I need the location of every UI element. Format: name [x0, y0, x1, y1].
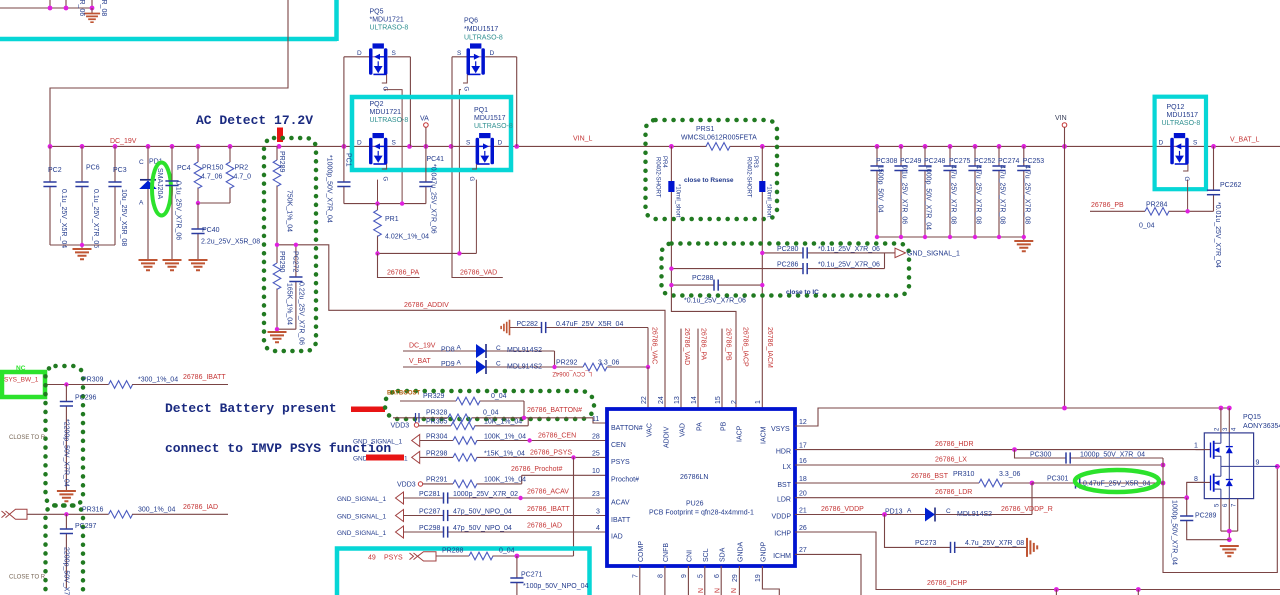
- svg-text:PC308: PC308: [876, 158, 898, 165]
- svg-text:26786_IBATT: 26786_IBATT: [527, 506, 570, 513]
- svg-text:*0.01u_25V_X7R_04: *0.01u_25V_X7R_04: [1214, 202, 1221, 268]
- resistor PR310: [953, 471, 1032, 487]
- svg-text:BATBOOST: BATBOOST: [387, 391, 421, 397]
- svg-text:PR298: PR298: [426, 451, 448, 458]
- svg-text:MDU1517: MDU1517: [474, 115, 506, 122]
- svg-text:PD13: PD13: [885, 509, 903, 516]
- svg-text:GND_SIGNAL_1: GND_SIGNAL_1: [337, 496, 387, 503]
- svg-text:PC248: PC248: [924, 158, 946, 165]
- resistor PR329: [400, 393, 524, 418]
- svg-text:26786_ICHP: 26786_ICHP: [927, 580, 967, 587]
- wire PQ6 drain to rail: [516, 57, 518, 147]
- svg-text:AC Detect 17.2V: AC Detect 17.2V: [196, 113, 313, 128]
- svg-text:VIN_L: VIN_L: [573, 136, 593, 143]
- cyan highlight box (PQ12): [1155, 97, 1206, 190]
- svg-text:23: 23: [592, 491, 600, 498]
- svg-text:C: C: [946, 508, 951, 515]
- svg-text:17: 17: [799, 443, 807, 450]
- svg-text:L_CCV_0064Z: L_CCV_0064Z: [552, 370, 592, 376]
- highlight dotted box (PC297): [46, 506, 84, 595]
- svg-text:PQ5: PQ5: [370, 9, 384, 16]
- capacitor PC298: [404, 525, 608, 538]
- svg-text:26786_VAD: 26786_VAD: [460, 270, 497, 277]
- svg-text:1000p_50V_X7R_04: 1000p_50V_X7R_04: [1080, 452, 1145, 459]
- svg-text:10u_25V_X5R_08: 10u_25V_X5R_08: [120, 189, 127, 246]
- svg-text:VDDP: VDDP: [772, 514, 792, 521]
- svg-text:D: D: [357, 140, 362, 147]
- svg-text:PC253: PC253: [1023, 158, 1045, 165]
- wire 26786_PB to pin 15: [721, 329, 723, 409]
- svg-text:4.7u_25V_X7R_08: 4.7u_25V_X7R_08: [950, 165, 957, 224]
- svg-text:*0.1u_25V_X7R_06: *0.1u_25V_X7R_06: [818, 246, 880, 253]
- wire cap bank bottom: [877, 237, 1024, 240]
- svg-text:1: 1: [755, 400, 762, 404]
- resistor PR316: [27, 507, 228, 519]
- svg-text:1000p_50V_X7R_04: 1000p_50V_X7R_04: [1171, 500, 1178, 565]
- transistor PQ6 *MDU1517: [452, 18, 517, 92]
- svg-text:DC_19V: DC_19V: [409, 343, 436, 350]
- svg-text:0_04: 0_04: [491, 393, 507, 400]
- svg-text:PC40: PC40: [202, 227, 220, 234]
- wire PD8 cathode down: [554, 351, 556, 367]
- svg-text:26786_HDR: 26786_HDR: [935, 441, 974, 448]
- svg-text:26786_IAD: 26786_IAD: [183, 504, 218, 511]
- svg-text:47p_50V_NPO_04: 47p_50V_NPO_04: [453, 525, 512, 532]
- resistor PR328: [393, 410, 607, 424]
- svg-text:PC6: PC6: [86, 165, 100, 172]
- svg-text:PC271: PC271: [521, 572, 543, 579]
- ground (PC282, rotated): [501, 320, 509, 336]
- wire 26786_VAC to pin 22: [647, 367, 649, 409]
- svg-text:14: 14: [691, 396, 698, 404]
- red marker (after title): [351, 407, 385, 413]
- svg-text:*MDU1721: *MDU1721: [370, 17, 404, 24]
- resistor PR292: [556, 360, 648, 371]
- resistor PR305 pull-up VDD3: [391, 418, 529, 430]
- svg-text:PA: PA: [697, 422, 704, 431]
- svg-text:26786_IBATT: 26786_IBATT: [183, 374, 226, 381]
- svg-text:A: A: [139, 200, 144, 207]
- resistor PR309: [82, 377, 228, 389]
- svg-text:26786_CEN: 26786_CEN: [538, 433, 576, 440]
- wire VDDP pin 21: [795, 514, 925, 516]
- svg-text:PQ6: PQ6: [464, 18, 478, 25]
- svg-text:9: 9: [681, 574, 688, 578]
- wire LDR pin 20: [795, 482, 1204, 497]
- svg-text:C: C: [496, 345, 501, 352]
- svg-text:3.3_06: 3.3_06: [598, 360, 620, 367]
- port 26786_IAD (left): [2, 511, 10, 518]
- transistor PQ15-B (bottom NFET): [1187, 466, 1233, 498]
- ground (PC4): [163, 260, 182, 270]
- wire 26786_PA to pin 14: [697, 329, 699, 409]
- svg-text:GNDA: GNDA: [738, 541, 745, 562]
- wire PQ15 drain feeds: [1221, 408, 1229, 433]
- svg-text:0.1u_25V_X7R_06: 0.1u_25V_X7R_06: [175, 181, 182, 240]
- svg-text:*10mil_short: *10mil_short: [675, 184, 681, 218]
- svg-text:S: S: [457, 50, 462, 57]
- wire CNFB pin 8: [664, 566, 666, 595]
- svg-text:PC281: PC281: [419, 491, 441, 498]
- op-amp/controller U PU26 26786LN: [607, 409, 795, 566]
- svg-text:0_04: 0_04: [483, 410, 499, 417]
- svg-text:WMCSL0612R005FETA: WMCSL0612R005FETA: [681, 135, 757, 142]
- svg-text:V_BAT: V_BAT: [409, 358, 431, 365]
- svg-text:ULTRASO-8: ULTRASO-8: [464, 35, 503, 42]
- svg-text:ACAV: ACAV: [611, 500, 630, 507]
- svg-text:D: D: [357, 50, 362, 57]
- svg-text:1500p_50V_04: 1500p_50V_04: [877, 165, 884, 213]
- svg-text:9: 9: [1256, 460, 1260, 467]
- svg-text:1000p_25V_X7R_02: 1000p_25V_X7R_02: [453, 491, 518, 498]
- wire PQ5 drain to rail: [343, 57, 345, 147]
- ground (PC40): [189, 260, 208, 270]
- wire PR1 bottom row / gates node: [378, 252, 477, 254]
- svg-text:S: S: [1193, 140, 1198, 147]
- svg-text:IBATT: IBATT: [611, 517, 631, 524]
- capacitor PC248: [918, 146, 945, 237]
- svg-text:D: D: [1159, 140, 1164, 147]
- ground (PC296): [57, 491, 76, 501]
- wire COMP pin 7: [639, 566, 641, 595]
- svg-text:R0402-SHORT: R0402-SHORT: [655, 157, 661, 198]
- svg-text:PR4: PR4: [661, 156, 667, 168]
- wire SYS_BW_1 to PR309: [46, 384, 109, 386]
- svg-text:1: 1: [1194, 443, 1198, 450]
- wire PSYS down to PR288 row: [573, 457, 575, 556]
- svg-text:LDR: LDR: [777, 497, 791, 504]
- transistor PQ1 MDU1517: [466, 107, 513, 182]
- transistor PQ2 MDU1721: [357, 101, 408, 182]
- svg-text:PR288: PR288: [442, 548, 464, 555]
- svg-text:6: 6: [714, 574, 721, 578]
- svg-text:MDU1517: MDU1517: [1167, 112, 1199, 119]
- svg-text:25: 25: [592, 451, 600, 458]
- resistor PR3 (R0402-SHORT): [746, 146, 772, 409]
- svg-text:MDL914S2: MDL914S2: [507, 347, 542, 354]
- capacitor PC273: [885, 515, 1027, 554]
- svg-text:NC: NC: [16, 365, 26, 372]
- svg-text:GND_SIGNAL_1: GND_SIGNAL_1: [353, 439, 403, 446]
- svg-text:PC297: PC297: [75, 523, 97, 530]
- diode PD9 MDL914S2: [403, 360, 583, 375]
- svg-text:AONY36354: AONY36354: [1243, 423, 1280, 430]
- capacitor PC40: [191, 203, 260, 259]
- highlight dotted box (close to IC caps): [662, 244, 910, 296]
- svg-text:*MDU1517: *MDU1517: [464, 26, 498, 33]
- svg-text:PSYS: PSYS: [384, 555, 403, 562]
- wire 26786_VAD to pin 13: [680, 329, 682, 409]
- wire SCL pin 5: [704, 566, 706, 595]
- svg-text:ULTRASO-8: ULTRASO-8: [370, 25, 409, 32]
- svg-text:PRS1: PRS1: [696, 126, 714, 133]
- wire top-left fragment: [0, 0, 92, 8]
- svg-text:PC1: PC1: [345, 153, 352, 167]
- svg-text:G: G: [468, 177, 474, 182]
- node junction dots (rsense caps): [669, 251, 764, 288]
- svg-text:CLOSE TO R: CLOSE TO R: [9, 435, 46, 441]
- svg-text:close to Rsense: close to Rsense: [684, 177, 734, 184]
- svg-text:PQ15: PQ15: [1243, 414, 1261, 421]
- svg-text:PC275: PC275: [949, 158, 971, 165]
- wire ICHM pin 27: [795, 554, 861, 595]
- svg-text:PR1: PR1: [385, 216, 399, 223]
- svg-text:PC262: PC262: [1220, 182, 1242, 189]
- svg-text:26786_PSYS: 26786_PSYS: [530, 450, 572, 457]
- svg-text:MDL914S2: MDL914S2: [957, 511, 992, 518]
- svg-text:PC280: PC280: [777, 246, 799, 253]
- svg-text:BST: BST: [777, 482, 791, 489]
- green highlight box SYS_BW_1: [2, 372, 45, 397]
- svg-text:*0.1u_25V_X7R_06: *0.1u_25V_X7R_06: [684, 298, 746, 305]
- svg-text:IAD: IAD: [611, 534, 623, 541]
- svg-text:R_06: R_06: [78, 0, 85, 16]
- svg-text:PQ2: PQ2: [370, 101, 384, 108]
- wire divider bottom: [277, 329, 296, 331]
- transistor PQ15 AONY36354 (dual NFET): [1194, 414, 1280, 507]
- svg-text:PC2: PC2: [48, 167, 62, 174]
- wire PQ15 source pins 5/6/7 to ground: [1221, 499, 1238, 540]
- resistor PR150: [194, 146, 223, 203]
- svg-text:26786_PB: 26786_PB: [1091, 202, 1124, 209]
- svg-text:COMP: COMP: [638, 541, 645, 562]
- svg-text:GND_SIGNAL_1: GND_SIGNAL_1: [337, 514, 387, 521]
- resistor PR1: [374, 204, 429, 254]
- svg-text:*2200p_50V_X7R_04: *2200p_50V_X7R_04: [63, 419, 70, 487]
- cyan highlight box (PQ2/PQ1): [352, 97, 511, 170]
- wire GNDA pin 29: [738, 566, 740, 595]
- ground (PQ15): [1220, 546, 1239, 556]
- svg-text:26: 26: [799, 525, 807, 532]
- svg-text:N: N: [729, 588, 736, 593]
- svg-text:26786_LX: 26786_LX: [935, 457, 967, 464]
- wire LX node loop: [1163, 458, 1280, 573]
- svg-text:49: 49: [368, 555, 376, 562]
- svg-text:10K_1%_04: 10K_1%_04: [484, 419, 522, 426]
- svg-text:VIN: VIN: [1055, 115, 1067, 122]
- svg-text:PD8: PD8: [441, 347, 455, 354]
- svg-text:D: D: [490, 50, 495, 57]
- svg-text:PC289: PC289: [1195, 513, 1217, 520]
- svg-text:ICHP: ICHP: [774, 531, 791, 538]
- svg-text:PC41: PC41: [427, 156, 445, 163]
- wire PQ2 gate: [377, 180, 379, 204]
- svg-text:A: A: [907, 508, 912, 515]
- wire ICHP branch drops: [1056, 590, 1138, 595]
- svg-text:0.47uF_25V_X5R_04: 0.47uF_25V_X5R_04: [556, 321, 623, 328]
- svg-text:PC287: PC287: [419, 509, 441, 516]
- svg-text:G: G: [382, 177, 388, 182]
- svg-text:*100p_50V_NPO_04: *100p_50V_NPO_04: [523, 583, 588, 590]
- svg-text:close to IC: close to IC: [786, 289, 819, 296]
- svg-text:13: 13: [674, 396, 681, 404]
- capacitor PC6: [75, 146, 99, 248]
- svg-text:*10mil_short: *10mil_short: [766, 184, 772, 218]
- capacitor PC296: [60, 385, 97, 491]
- svg-text:4.7u_25V_X7R_08: 4.7u_25V_X7R_08: [1023, 165, 1030, 224]
- svg-text:28: 28: [592, 434, 600, 441]
- svg-text:7: 7: [633, 574, 640, 578]
- svg-text:26786_PA: 26786_PA: [387, 270, 420, 277]
- svg-text:PC252: PC252: [974, 158, 996, 165]
- svg-text:1000p_50V_X7R_04: 1000p_50V_X7R_04: [925, 165, 932, 230]
- svg-text:ULTRASO-8: ULTRASO-8: [1162, 120, 1201, 127]
- svg-text:PR150: PR150: [202, 165, 224, 172]
- svg-text:VAC: VAC: [647, 423, 654, 437]
- svg-text:PC301: PC301: [1047, 476, 1069, 483]
- ground (PC273, rotated right): [1027, 538, 1037, 557]
- capacitor PC297: [60, 514, 97, 595]
- svg-text:26786_PB: 26786_PB: [725, 328, 732, 361]
- resistor PR2: [226, 146, 251, 203]
- svg-text:R_08: R_08: [100, 0, 107, 16]
- capacitor PC288: [671, 275, 762, 305]
- wire main rail DC_19V / VIN_L / V_BAT_L: [50, 145, 1280, 147]
- svg-text:PSYS: PSYS: [611, 459, 630, 466]
- svg-text:PR290: PR290: [278, 251, 285, 273]
- svg-text:PU26: PU26: [686, 501, 704, 508]
- svg-text:PC272: PC272: [292, 251, 299, 273]
- svg-text:PCB Footprint = qfn28-4x4mmd-1: PCB Footprint = qfn28-4x4mmd-1: [649, 510, 754, 517]
- wire HDR pin 17: [795, 449, 1204, 451]
- svg-text:26786_Prochot#: 26786_Prochot#: [511, 466, 562, 473]
- svg-text:PR3: PR3: [752, 156, 758, 168]
- svg-text:V_BAT_L: V_BAT_L: [1230, 137, 1260, 144]
- capacitor PC275: [943, 146, 970, 237]
- svg-text:8: 8: [658, 574, 665, 578]
- svg-text:PR292: PR292: [556, 360, 578, 367]
- svg-text:Detect Battery present: Detect Battery present: [165, 401, 337, 416]
- svg-text:10: 10: [592, 468, 600, 475]
- wire PQ6 gate down to PR1 node: [459, 90, 461, 254]
- svg-text:26786_IAD: 26786_IAD: [527, 523, 562, 530]
- svg-text:G: G: [463, 87, 469, 92]
- capacitor PC308: [870, 146, 897, 237]
- capacitor PC301: [1032, 476, 1163, 489]
- svg-text:PR304: PR304: [426, 434, 448, 441]
- svg-text:BATTON#: BATTON#: [611, 425, 643, 432]
- svg-text:0.1u_25V_X7R_06: 0.1u_25V_X7R_06: [92, 189, 99, 248]
- svg-text:VSYS: VSYS: [771, 426, 790, 433]
- svg-text:0.22u_25V_X7R_06: 0.22u_25V_X7R_06: [298, 282, 305, 345]
- cyan highlight box (PSYS bottom): [337, 549, 590, 595]
- svg-text:PC273: PC273: [915, 540, 937, 547]
- svg-text:2200p_50V_X7R_04: 2200p_50V_X7R_04: [63, 547, 70, 595]
- svg-text:SYS_BW_1: SYS_BW_1: [4, 377, 39, 384]
- svg-text:750K_1%_04: 750K_1%_04: [286, 190, 293, 232]
- wire PQ15 phase node pin 9: [1221, 465, 1277, 467]
- svg-text:GNDP: GNDP: [761, 541, 768, 562]
- wire PC282 to VAC node: [647, 328, 649, 367]
- svg-text:19: 19: [755, 574, 762, 582]
- svg-text:VDD3: VDD3: [391, 423, 410, 430]
- svg-text:26786_IACM: 26786_IACM: [766, 327, 773, 368]
- capacitor PC253: [1017, 146, 1044, 237]
- highlight dotted box (PC296): [46, 366, 84, 506]
- capacitor PC280: [762, 246, 884, 259]
- svg-text:5: 5: [698, 574, 705, 578]
- transistor PQ15-A (top NFET): [1196, 433, 1233, 466]
- svg-text:N: N: [712, 588, 719, 593]
- svg-text:G: G: [382, 87, 388, 92]
- node junction dots top-left: [48, 6, 95, 11]
- svg-text:26786_VAC: 26786_VAC: [651, 327, 658, 364]
- svg-text:PC249: PC249: [900, 158, 922, 165]
- svg-text:DC_19V: DC_19V: [110, 138, 137, 145]
- svg-text:ICHM: ICHM: [773, 553, 791, 560]
- svg-text:*15K_1%_04: *15K_1%_04: [484, 451, 525, 458]
- highlight dotted oval (BATTON): [385, 391, 594, 419]
- svg-text:IACM: IACM: [761, 426, 768, 444]
- wire PQ5 source to rail: [409, 57, 411, 147]
- capacitor PC249: [894, 146, 921, 237]
- svg-text:PD9: PD9: [441, 361, 455, 368]
- capacitor PC271: [510, 556, 588, 595]
- cyan highlight corner (top-left): [0, 0, 337, 41]
- svg-text:4.02K_1%_04: 4.02K_1%_04: [385, 234, 429, 241]
- capacitor PC300: [1015, 450, 1164, 464]
- svg-text:ULTRASO-8: ULTRASO-8: [474, 123, 513, 130]
- resistor PR4 (R0402-SHORT): [655, 146, 681, 285]
- svg-text:PC296: PC296: [75, 395, 97, 402]
- svg-text:Prochot#: Prochot#: [611, 477, 639, 484]
- svg-text:PC282: PC282: [517, 321, 539, 328]
- svg-text:PQ12: PQ12: [1167, 104, 1185, 111]
- wire PQ5 gate: [384, 90, 402, 204]
- svg-text:PC4: PC4: [177, 165, 191, 172]
- wire PR150/PR2 join: [198, 202, 230, 204]
- svg-text:S: S: [466, 140, 471, 147]
- wire CNI pin 9: [687, 566, 689, 595]
- svg-text:A: A: [457, 345, 462, 352]
- node junction dots on rail: [48, 144, 1216, 149]
- capacitor PC287: [404, 509, 608, 522]
- svg-text:*0.1u_25V_X7R_06: *0.1u_25V_X7R_06: [818, 262, 880, 269]
- capacitor PC274: [992, 146, 1019, 237]
- svg-text:4.7_06: 4.7_06: [201, 174, 223, 181]
- wire BST pin 18: [795, 482, 979, 484]
- wire GNDP pin 19: [762, 566, 779, 595]
- svg-text:ULTRASO-8: ULTRASO-8: [370, 117, 409, 124]
- wire 26786_PA stub: [378, 253, 420, 277]
- svg-text:PR289: PR289: [278, 151, 285, 173]
- wire VIN vertical: [1064, 127, 1066, 408]
- svg-text:21: 21: [799, 508, 807, 515]
- svg-text:CNFB: CNFB: [663, 543, 670, 562]
- svg-text:PC274: PC274: [998, 158, 1020, 165]
- highlight dotted box (PR289 divider): [264, 138, 316, 351]
- svg-text:4.7u_25V_X7R_08: 4.7u_25V_X7R_08: [999, 165, 1006, 224]
- svg-text:PC286: PC286: [777, 262, 799, 269]
- ground (cap bank): [1014, 241, 1033, 251]
- svg-text:0.1u_25V_X7R_06: 0.1u_25V_X7R_06: [901, 165, 908, 224]
- capacitor PC272: [289, 245, 304, 345]
- svg-text:SMAJ20A: SMAJ20A: [156, 168, 163, 199]
- svg-text:IACP: IACP: [737, 425, 744, 442]
- capacitor PC3: [108, 146, 127, 246]
- wire ICHP pin 26: [795, 532, 1280, 590]
- svg-text:PR309: PR309: [82, 377, 104, 384]
- svg-text:26786_ADDIV: 26786_ADDIV: [404, 302, 449, 309]
- svg-text:0.1u_25V_X5R_04: 0.1u_25V_X5R_04: [60, 189, 67, 248]
- wire PQ12 gate: [1187, 180, 1189, 211]
- svg-text:C: C: [139, 159, 144, 166]
- svg-text:26786_ACAV: 26786_ACAV: [527, 489, 569, 496]
- svg-text:GND_SIGNAL_1: GND_SIGNAL_1: [907, 251, 960, 258]
- wire gate row: [344, 203, 426, 205]
- svg-text:29: 29: [732, 574, 739, 582]
- ground port GND_SIGNAL_1 (arrow): [895, 248, 906, 257]
